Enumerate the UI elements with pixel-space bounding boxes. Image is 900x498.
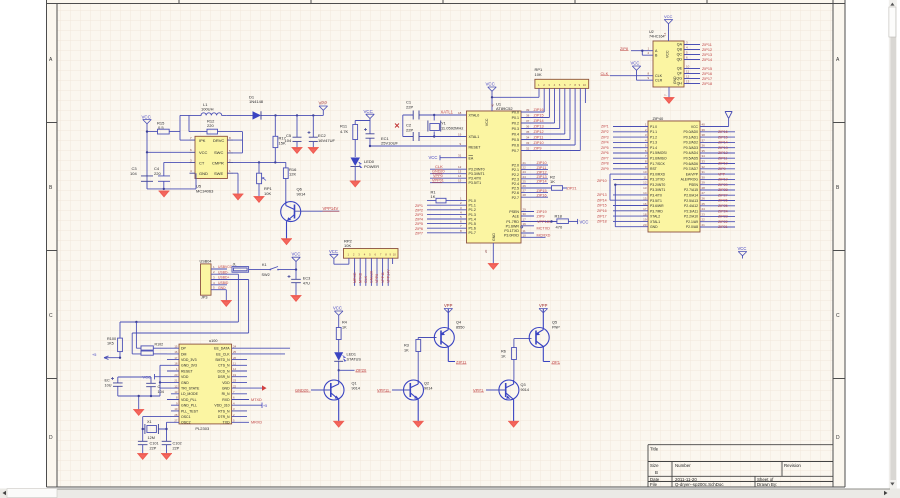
ground (LED0) bbox=[350, 181, 361, 187]
svg-text:29: 29 bbox=[702, 181, 706, 185]
transistor Q1 9014 bbox=[311, 380, 360, 422]
svg-text:P2.5/A13: P2.5/A13 bbox=[684, 199, 698, 203]
svg-text:P0.7/AD7: P0.7/AD7 bbox=[683, 167, 698, 171]
svg-text:30: 30 bbox=[523, 212, 527, 216]
svg-text:Size: Size bbox=[650, 463, 659, 468]
svg-text:P1.5/MOSI: P1.5/MOSI bbox=[650, 151, 667, 155]
svg-text:ZIP3: ZIP3 bbox=[415, 213, 423, 217]
resistor R17 bbox=[273, 115, 287, 162]
wire RP1 staircase bus bbox=[544, 88, 580, 150]
svg-text:1K: 1K bbox=[404, 349, 409, 353]
svg-text:P1.3: P1.3 bbox=[469, 213, 476, 217]
resistor network RP2 bbox=[344, 238, 399, 258]
svg-text:R4: R4 bbox=[342, 321, 347, 325]
svg-text:13: 13 bbox=[686, 80, 690, 84]
svg-text:VPP14V: VPP14V bbox=[386, 269, 390, 283]
svg-text:P0.4: P0.4 bbox=[512, 133, 519, 137]
power port VCC (EA pin) bbox=[429, 155, 441, 160]
power port +5 bbox=[92, 353, 121, 359]
svg-text:22P: 22P bbox=[173, 446, 180, 450]
svg-text:X1: X1 bbox=[147, 420, 152, 424]
svg-text:SW2: SW2 bbox=[262, 273, 270, 277]
svg-text:GND: GND bbox=[222, 387, 230, 391]
svg-text:ZIP27: ZIP27 bbox=[718, 193, 728, 197]
svg-text:18: 18 bbox=[174, 362, 178, 366]
svg-text:RST: RST bbox=[650, 167, 657, 171]
svg-text:14: 14 bbox=[643, 191, 647, 195]
svg-text:VCC: VCC bbox=[429, 155, 438, 160]
svg-text:P1.4: P1.4 bbox=[469, 217, 476, 221]
svg-text:39: 39 bbox=[702, 128, 706, 132]
svg-text:VCC: VCC bbox=[364, 109, 373, 114]
svg-text:Q4: Q4 bbox=[456, 321, 461, 325]
svg-text:P2.7: P2.7 bbox=[512, 196, 519, 200]
svg-text:ZIP12: ZIP12 bbox=[534, 130, 544, 134]
resistor R103 bbox=[141, 351, 167, 355]
svg-text:10U: 10U bbox=[105, 383, 112, 387]
ground (Q6 emitter) bbox=[281, 239, 292, 245]
svg-text:EA/VPP: EA/VPP bbox=[686, 172, 699, 176]
transistor Q2 9014 bbox=[392, 380, 432, 422]
svg-text:10: 10 bbox=[393, 253, 397, 257]
svg-text:ZIP16: ZIP16 bbox=[702, 72, 712, 76]
svg-text:ZIP15: ZIP15 bbox=[534, 114, 544, 118]
wire U2 GND pin 7 bbox=[664, 87, 670, 98]
svg-text:21: 21 bbox=[174, 379, 178, 383]
inductor L1 bbox=[196, 102, 227, 115]
power port VCC (R18) bbox=[578, 219, 589, 224]
svg-text:GND: GND bbox=[181, 381, 189, 385]
svg-text:16: 16 bbox=[174, 350, 178, 354]
svg-text:ZIP2: ZIP2 bbox=[601, 130, 609, 134]
svg-text:C: C bbox=[49, 313, 53, 319]
svg-text:38: 38 bbox=[526, 114, 530, 118]
svg-text:CTS_N: CTS_N bbox=[218, 364, 230, 368]
svg-text:ZIP16: ZIP16 bbox=[718, 130, 728, 134]
svg-text:17: 17 bbox=[174, 356, 178, 360]
svg-text:P1.1: P1.1 bbox=[650, 130, 657, 134]
net label ZIP20 bbox=[356, 367, 368, 372]
svg-text:24: 24 bbox=[523, 175, 527, 179]
svg-text:ZIP18: ZIP18 bbox=[597, 220, 607, 224]
svg-text:16: 16 bbox=[523, 222, 527, 226]
svg-text:GND: GND bbox=[492, 233, 496, 241]
power port VCC (U100 VDD) bbox=[143, 374, 168, 379]
svg-text:P2.4/A12: P2.4/A12 bbox=[684, 204, 698, 208]
svg-text:XTAL0: XTAL0 bbox=[469, 114, 480, 118]
svg-text:ZIP13: ZIP13 bbox=[597, 193, 607, 197]
svg-text:31: 31 bbox=[458, 154, 462, 158]
wire node to L1/R12/IPK bbox=[180, 115, 207, 140]
svg-text:P1.7: P1.7 bbox=[469, 231, 476, 235]
wire GND pin U5 bbox=[196, 173, 238, 194]
svg-text:ZIP14: ZIP14 bbox=[702, 58, 712, 62]
svg-text:MCRXD: MCRXD bbox=[537, 234, 551, 238]
svg-text:19: 19 bbox=[458, 133, 462, 137]
svg-text:P0.1/AD1: P0.1/AD1 bbox=[683, 135, 698, 139]
svg-text:23: 23 bbox=[702, 212, 706, 216]
svg-text:33: 33 bbox=[702, 160, 706, 164]
svg-text:P0.2: P0.2 bbox=[512, 122, 519, 126]
svg-text:11: 11 bbox=[233, 362, 236, 366]
svg-text:15: 15 bbox=[174, 344, 178, 348]
svg-text:ZIP16: ZIP16 bbox=[537, 193, 547, 197]
net labels ZIP1-ZIP7 (P1 rows) bbox=[415, 204, 423, 236]
svg-text:USB04: USB04 bbox=[200, 260, 212, 264]
svg-text:P2.3: P2.3 bbox=[512, 177, 519, 181]
inductor L2 (ferrite) bbox=[232, 262, 249, 272]
net labels ZIP40 right bbox=[718, 130, 728, 229]
svg-text:RESET: RESET bbox=[469, 145, 482, 149]
svg-text:ZIP6: ZIP6 bbox=[601, 151, 609, 155]
wire U2 A/B inputs bbox=[631, 47, 653, 56]
svg-text:ZIP9: ZIP9 bbox=[534, 147, 542, 151]
svg-text:P2.1/A9: P2.1/A9 bbox=[686, 220, 698, 224]
svg-text:8550: 8550 bbox=[456, 326, 464, 330]
net labels ZIP16..ZIP9 (P0 rows) bbox=[534, 108, 544, 151]
svg-text:GND20: GND20 bbox=[432, 170, 445, 174]
svg-text:C: C bbox=[158, 385, 161, 389]
svg-text:Revision: Revision bbox=[784, 463, 801, 468]
svg-text:K1: K1 bbox=[262, 263, 267, 267]
capacitor C102 bbox=[162, 441, 182, 453]
svg-text:MTXD: MTXD bbox=[358, 272, 362, 283]
svg-text:24: 24 bbox=[702, 207, 706, 211]
svg-text:File: File bbox=[650, 482, 658, 487]
ground (U5 SWE) bbox=[233, 194, 244, 200]
resistor R2 bbox=[550, 175, 567, 191]
svg-text:104: 104 bbox=[130, 171, 137, 176]
svg-text:P3.0RXD: P3.0RXD bbox=[504, 233, 519, 237]
svg-text:VDD: VDD bbox=[181, 375, 189, 379]
IC U100 PL2303 bbox=[179, 339, 232, 431]
svg-text:11.0592MHz: 11.0592MHz bbox=[441, 125, 463, 130]
svg-text:VDD: VDD bbox=[222, 381, 230, 385]
svg-text:P1.0: P1.0 bbox=[469, 199, 476, 203]
svg-text:P3.6/WR: P3.6/WR bbox=[650, 204, 664, 208]
wire XTAL rows to chip bbox=[434, 115, 466, 137]
svg-text:P3.3/INT1: P3.3/INT1 bbox=[650, 188, 665, 192]
svg-text:VPP: VPP bbox=[319, 101, 328, 106]
svg-text:QG: QG bbox=[676, 77, 682, 81]
svg-text:27: 27 bbox=[523, 189, 527, 193]
svg-text:12: 12 bbox=[174, 384, 178, 388]
svg-text:EC3: EC3 bbox=[303, 276, 310, 280]
svg-text:22P: 22P bbox=[406, 104, 413, 109]
ZIP40 left pin wires bbox=[613, 123, 648, 227]
svg-text:EE_CLK: EE_CLK bbox=[216, 352, 230, 356]
svg-text:R3: R3 bbox=[404, 344, 409, 348]
svg-text:19: 19 bbox=[643, 218, 647, 222]
svg-text:P3.3/INT1: P3.3/INT1 bbox=[469, 172, 485, 176]
power port +5 (VDD_310) bbox=[249, 403, 267, 409]
wire U2 outputs bbox=[684, 41, 700, 84]
svg-text:GND: GND bbox=[199, 171, 208, 176]
title block bbox=[648, 445, 833, 487]
svg-text:DRVC: DRVC bbox=[213, 138, 224, 143]
ground (EC3) bbox=[291, 296, 302, 302]
svg-text:40: 40 bbox=[491, 103, 495, 107]
svg-text:ZIP12: ZIP12 bbox=[537, 170, 547, 174]
wire USB D- down bbox=[237, 274, 239, 322]
svg-text:RESET: RESET bbox=[181, 369, 194, 373]
svg-text:ZIP22: ZIP22 bbox=[718, 220, 728, 224]
svg-text:GND20: GND20 bbox=[295, 387, 309, 392]
svg-text:1K5: 1K5 bbox=[107, 341, 114, 345]
crystal X1 bbox=[142, 417, 168, 442]
svg-text:ZIP26: ZIP26 bbox=[718, 199, 728, 203]
svg-text:GND20: GND20 bbox=[370, 271, 374, 283]
svg-text:220: 220 bbox=[207, 123, 214, 128]
svg-text:15: 15 bbox=[458, 179, 462, 183]
svg-text:13: 13 bbox=[643, 186, 647, 190]
transistor Q5 PNP bbox=[529, 309, 560, 362]
power arrow (ZIP40 VCC) bbox=[725, 112, 732, 127]
svg-text:36: 36 bbox=[526, 125, 530, 129]
resistor R16 bbox=[283, 162, 297, 201]
svg-text:ZIP7: ZIP7 bbox=[601, 156, 609, 160]
svg-text:ZIP11: ZIP11 bbox=[534, 136, 544, 140]
svg-text:ZIP14: ZIP14 bbox=[537, 180, 547, 184]
svg-text:U2: U2 bbox=[649, 30, 654, 34]
svg-text:CLR: CLR bbox=[655, 79, 663, 83]
net label VPP11 (Q2 base) bbox=[377, 387, 391, 392]
svg-text:u100: u100 bbox=[209, 339, 217, 343]
svg-text:P0.5: P0.5 bbox=[512, 138, 519, 142]
svg-text:36: 36 bbox=[702, 144, 706, 148]
resistor R4 bbox=[336, 321, 347, 353]
U1 right pin stubs P2 and wires bbox=[521, 161, 552, 197]
net label XATL1 bbox=[441, 110, 454, 115]
net label VPP1 (Q3 base) bbox=[473, 387, 484, 392]
power port VCC (U1 pin 40) bbox=[486, 82, 497, 112]
svg-text:ZIP16: ZIP16 bbox=[534, 108, 544, 112]
connector USB JP3 bbox=[200, 260, 249, 300]
svg-text:GND_PLL: GND_PLL bbox=[181, 404, 197, 408]
wire RESET net bbox=[369, 145, 467, 147]
svg-text:ZIP4: ZIP4 bbox=[601, 141, 609, 145]
svg-text:26: 26 bbox=[702, 197, 706, 201]
net labels RP2 columns (vertical) bbox=[353, 269, 391, 283]
svg-text:9014: 9014 bbox=[352, 387, 360, 391]
svg-text:ZIP9: ZIP9 bbox=[601, 167, 609, 171]
svg-text:104: 104 bbox=[158, 390, 164, 394]
svg-text:EC: EC bbox=[105, 378, 111, 382]
wire junctions on VPP rail bbox=[274, 114, 314, 116]
svg-text:23: 23 bbox=[523, 170, 527, 174]
capacitor EC3 bbox=[288, 270, 311, 296]
svg-text:10K: 10K bbox=[344, 243, 351, 248]
svg-text:QC: QC bbox=[677, 53, 683, 57]
svg-text:27: 27 bbox=[174, 419, 178, 423]
capacitor EC electrolytic bbox=[105, 377, 123, 396]
svg-text:P1.6/MISO: P1.6/MISO bbox=[650, 157, 667, 161]
right scrollbar bbox=[889, 0, 897, 489]
svg-text:P2.6/A14: P2.6/A14 bbox=[684, 194, 698, 198]
wire bottom gnd rail bbox=[147, 188, 196, 190]
capacitor C1 bbox=[403, 100, 434, 120]
svg-text:20: 20 bbox=[484, 249, 488, 253]
svg-text:OSC1: OSC1 bbox=[181, 415, 191, 419]
svg-text:47U: 47U bbox=[303, 281, 310, 285]
svg-text:P1.0: P1.0 bbox=[650, 125, 657, 129]
wire DRVC/SWC tie bbox=[233, 132, 243, 153]
svg-text:9014: 9014 bbox=[297, 191, 307, 196]
svg-text:21: 21 bbox=[702, 223, 706, 227]
capacitor C 104 bbox=[118, 377, 164, 396]
ground (Q2) bbox=[413, 421, 424, 427]
svg-text:22: 22 bbox=[702, 218, 706, 222]
svg-text:ZIP11: ZIP11 bbox=[537, 166, 547, 170]
wire USB D+ down bbox=[248, 280, 250, 334]
crystal Y1 bbox=[428, 114, 463, 138]
svg-text:ZIP21: ZIP21 bbox=[718, 225, 728, 229]
svg-text:VDD_310: VDD_310 bbox=[214, 404, 229, 408]
svg-text:QA: QA bbox=[677, 43, 683, 47]
ground (C102) bbox=[161, 454, 172, 460]
svg-text:VCC: VCC bbox=[580, 219, 589, 224]
svg-text:28: 28 bbox=[702, 186, 706, 190]
svg-text:P0.5/AD5: P0.5/AD5 bbox=[683, 157, 698, 161]
ground (C3/C4 rail) bbox=[159, 191, 170, 197]
resistor R12 bbox=[207, 119, 243, 135]
svg-text:ZIP40: ZIP40 bbox=[653, 116, 664, 121]
svg-text:Q-dryer--sp200c.SchDoc: Q-dryer--sp200c.SchDoc bbox=[675, 482, 724, 487]
svg-text:P0.6/AD6: P0.6/AD6 bbox=[683, 162, 698, 166]
ZIP40 right pin wires bbox=[700, 123, 735, 228]
svg-text:DSR_N: DSR_N bbox=[218, 375, 230, 379]
svg-text:ZIP21: ZIP21 bbox=[567, 187, 577, 191]
wire P0 rows bbox=[526, 112, 581, 151]
svg-text:P0.2/AD2: P0.2/AD2 bbox=[683, 141, 698, 145]
svg-text:220: 220 bbox=[154, 171, 161, 176]
svg-text:XTAL1: XTAL1 bbox=[650, 220, 660, 224]
svg-text:ZIP9: ZIP9 bbox=[718, 167, 726, 171]
svg-text:GND_3V3: GND_3V3 bbox=[181, 364, 197, 368]
svg-text:LD_MODE: LD_MODE bbox=[181, 392, 199, 396]
net label ZIP11 (Q4 out) bbox=[456, 359, 467, 364]
U100 left pin stubs bbox=[167, 344, 179, 422]
svg-text:22P: 22P bbox=[406, 127, 413, 132]
svg-text:SWC: SWC bbox=[214, 150, 223, 155]
svg-text:ZIP15: ZIP15 bbox=[537, 189, 547, 193]
svg-text:P2.2/A10: P2.2/A10 bbox=[684, 215, 698, 219]
svg-text:VPP0: VPP0 bbox=[375, 274, 379, 283]
transistor Q4 8550 bbox=[434, 309, 464, 362]
svg-text:10: 10 bbox=[583, 83, 587, 87]
net label ZIP8 (U2 inputs) bbox=[620, 47, 629, 51]
svg-text:ZIP15: ZIP15 bbox=[718, 135, 728, 139]
svg-text:QB: QB bbox=[677, 48, 683, 52]
svg-text:ZIP5: ZIP5 bbox=[601, 146, 609, 150]
capacitor C101 bbox=[138, 441, 159, 453]
capacitor C2 bbox=[403, 123, 434, 142]
diode D1 bbox=[227, 95, 323, 120]
power port VCC (U2 CLR) bbox=[631, 61, 654, 81]
svg-text:DCD_N: DCD_N bbox=[218, 369, 231, 373]
wire U1 GND pin 20 bbox=[484, 243, 493, 264]
svg-text:QF: QF bbox=[677, 72, 683, 76]
svg-text:ZIP13: ZIP13 bbox=[537, 175, 547, 179]
svg-text:VCC: VCC bbox=[691, 125, 699, 129]
svg-text:ZIP8: ZIP8 bbox=[601, 162, 609, 166]
svg-text:CLK: CLK bbox=[435, 164, 443, 169]
svg-text:P0.3: P0.3 bbox=[512, 127, 519, 131]
svg-text:13: 13 bbox=[174, 390, 178, 394]
svg-text:ZIP14: ZIP14 bbox=[718, 141, 728, 145]
ground (under C5) bbox=[292, 148, 303, 154]
svg-text:P0.3/AD3: P0.3/AD3 bbox=[683, 146, 698, 150]
svg-text:EE_DATA: EE_DATA bbox=[214, 347, 230, 351]
U1 left pin stubs bbox=[427, 111, 467, 233]
resistor R15 bbox=[147, 121, 180, 135]
svg-text:GND: GND bbox=[218, 286, 226, 290]
svg-text:VCC: VCC bbox=[199, 150, 208, 155]
svg-text:Q2: Q2 bbox=[424, 382, 429, 386]
svg-text:MRXD: MRXD bbox=[353, 272, 357, 283]
ground (U100 left) bbox=[133, 395, 144, 416]
svg-text:C: C bbox=[836, 313, 840, 319]
resistor R18 bbox=[550, 214, 577, 230]
net label GND20 (P3.3) bbox=[432, 170, 445, 174]
power port VCC (LED1 branch) bbox=[333, 306, 343, 328]
svg-text:24: 24 bbox=[233, 344, 237, 348]
svg-text:USBD-: USBD- bbox=[218, 270, 229, 274]
svg-text:21: 21 bbox=[523, 161, 527, 165]
svg-text:ZIP17: ZIP17 bbox=[597, 214, 607, 218]
svg-text:D: D bbox=[49, 435, 53, 441]
svg-text:VPP: VPP bbox=[444, 303, 453, 308]
svg-text:STATUS: STATUS bbox=[347, 358, 362, 362]
svg-text:ZIP16: ZIP16 bbox=[597, 209, 607, 213]
svg-text:ZIP10: ZIP10 bbox=[718, 162, 728, 166]
svg-text:RTS_N: RTS_N bbox=[218, 409, 230, 413]
svg-text:15: 15 bbox=[643, 197, 647, 201]
svg-text:ZIP15: ZIP15 bbox=[597, 204, 607, 208]
svg-text:P3.2/INT0: P3.2/INT0 bbox=[650, 183, 665, 187]
svg-text:ZIP13: ZIP13 bbox=[702, 53, 712, 57]
svg-text:ZIP11: ZIP11 bbox=[456, 359, 467, 364]
svg-text:15K: 15K bbox=[279, 140, 286, 145]
svg-text:R102: R102 bbox=[155, 342, 164, 346]
svg-text:12: 12 bbox=[458, 165, 462, 169]
resistor R3 bbox=[404, 338, 437, 380]
svg-text:GND: GND bbox=[650, 225, 658, 229]
svg-text:12: 12 bbox=[686, 75, 690, 79]
svg-text:Number: Number bbox=[675, 463, 691, 468]
svg-text:CT: CT bbox=[199, 160, 205, 165]
svg-text:ZIP24: ZIP24 bbox=[718, 209, 728, 213]
svg-text:ZIP17: ZIP17 bbox=[702, 77, 712, 81]
svg-text:C101: C101 bbox=[150, 442, 159, 446]
svg-text:P2.4: P2.4 bbox=[512, 182, 519, 186]
svg-text:470: 470 bbox=[556, 225, 563, 230]
svg-text:100UH: 100UH bbox=[201, 107, 214, 112]
transistor Q3 9014 bbox=[486, 380, 529, 422]
net label ZIP1 (Q5 out) bbox=[552, 359, 561, 364]
svg-text:Title: Title bbox=[650, 446, 659, 451]
svg-text:MCTXD: MCTXD bbox=[537, 226, 551, 230]
svg-text:17: 17 bbox=[643, 207, 647, 211]
svg-text:22P: 22P bbox=[150, 446, 157, 450]
svg-text:DTR_N: DTR_N bbox=[218, 415, 230, 419]
svg-text:P2.3/A11: P2.3/A11 bbox=[684, 209, 698, 213]
svg-text:ZIP10: ZIP10 bbox=[597, 179, 607, 183]
svg-text:P2.5: P2.5 bbox=[512, 187, 519, 191]
svg-text:LED1: LED1 bbox=[347, 353, 357, 357]
svg-text:CLK: CLK bbox=[601, 71, 609, 76]
switch K1 SW2 bbox=[249, 263, 296, 277]
